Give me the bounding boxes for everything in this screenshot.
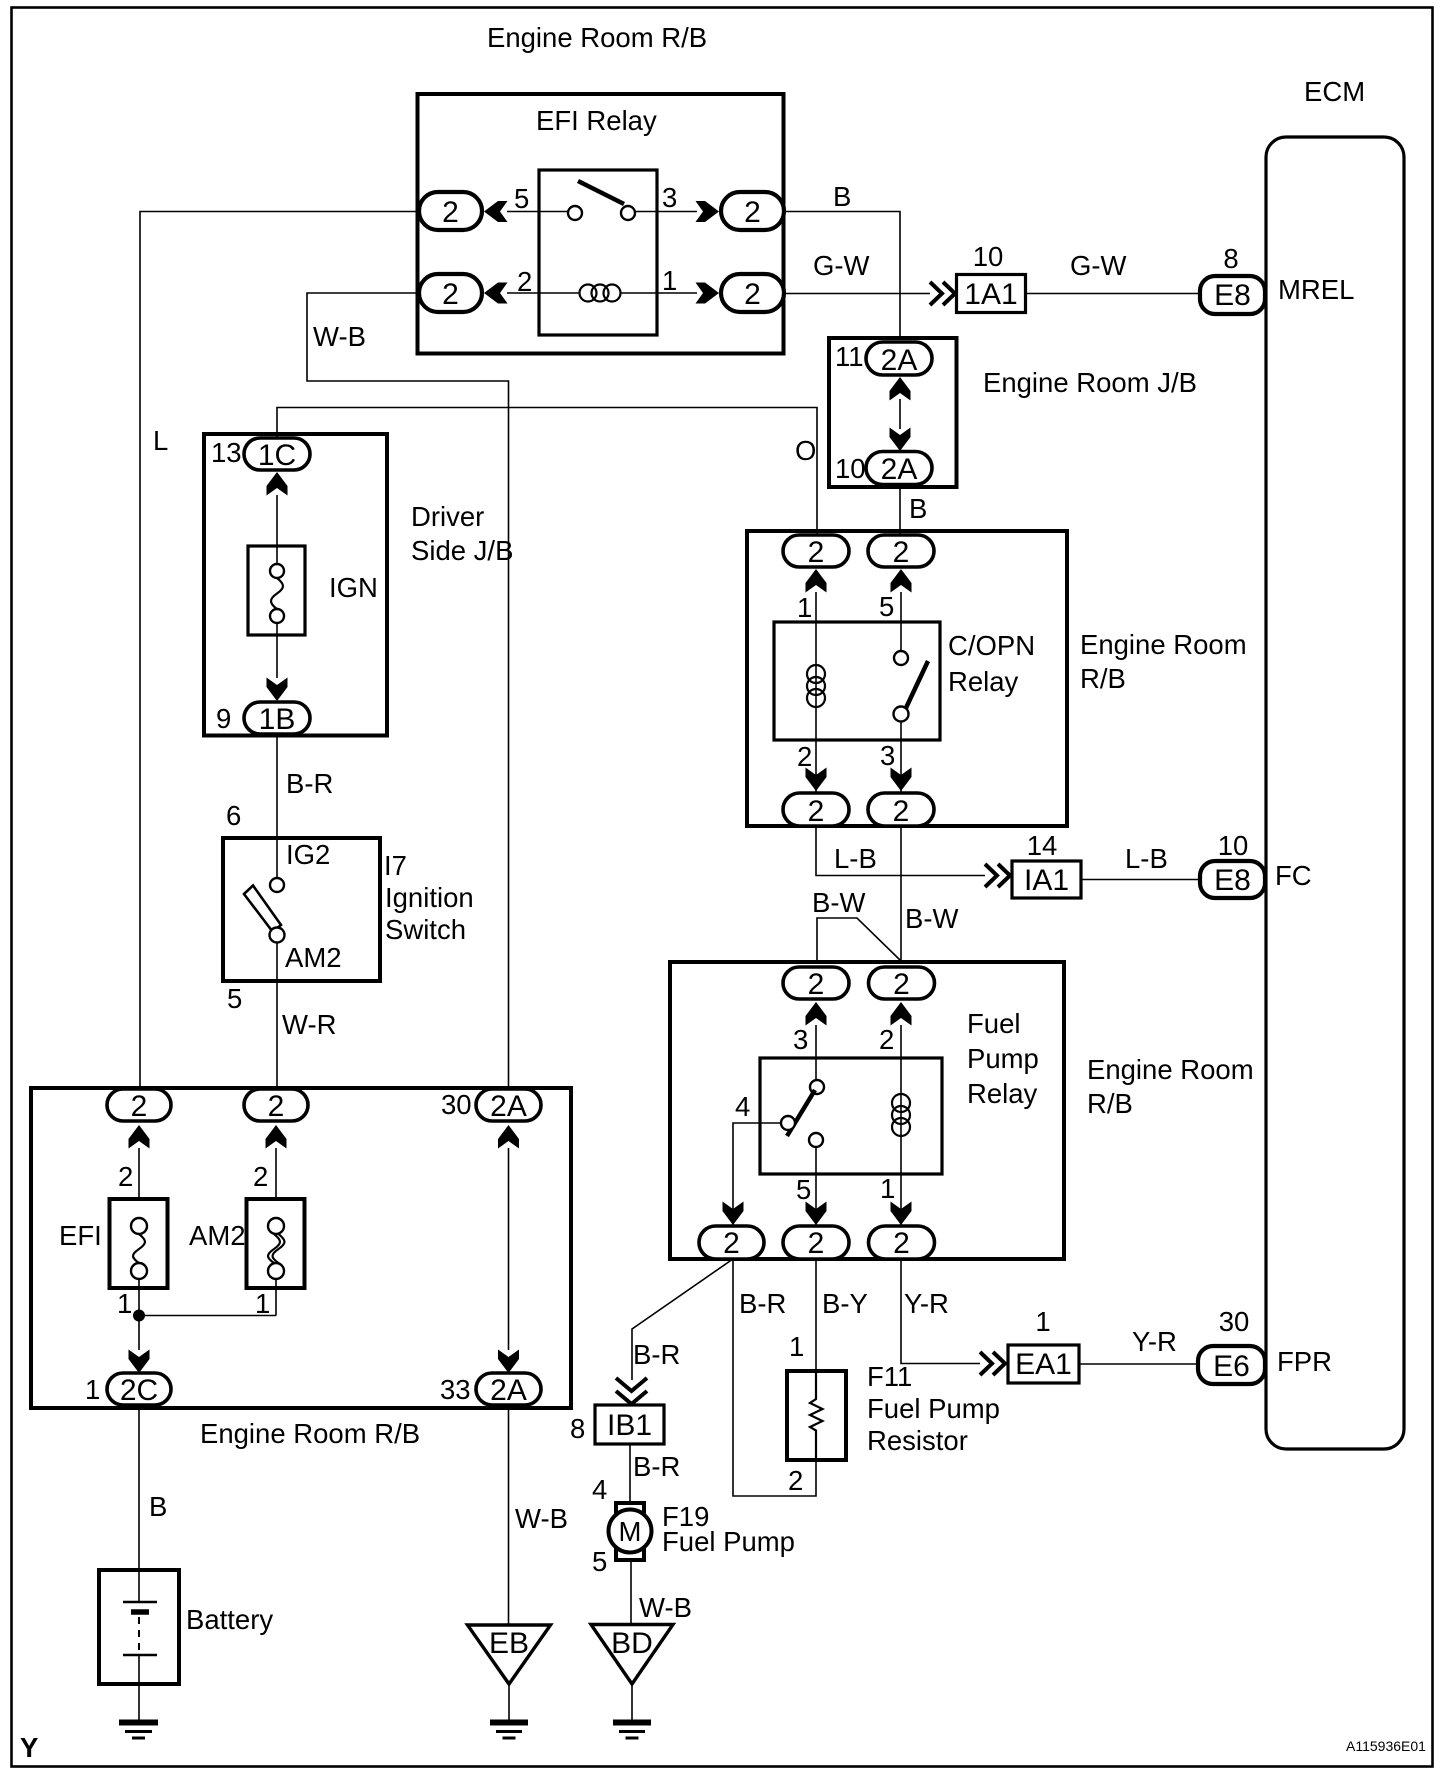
battery box: [99, 1570, 179, 1684]
svg-text:W-B: W-B: [639, 1592, 692, 1623]
AM2 fuse box: [247, 1199, 305, 1288]
svg-text:5: 5: [796, 1174, 811, 1205]
Engine Room J/B box: [829, 338, 957, 487]
IGN fuse box: [248, 546, 305, 635]
EFI relay coil wire pin2: [507, 292, 580, 294]
wire AM2 col upper: [275, 1148, 277, 1218]
svg-text:Fuel: Fuel: [967, 1008, 1021, 1039]
wire between J/B arrows: [899, 399, 901, 429]
svg-text:2: 2: [118, 1161, 133, 1192]
svg-text:2: 2: [808, 536, 825, 569]
svg-text:Relay: Relay: [967, 1078, 1038, 1109]
connector EA1: [1008, 1345, 1079, 1383]
svg-text:2: 2: [442, 278, 459, 311]
Engine Room R/B bottom box: [31, 1088, 571, 1408]
svg-text:2: 2: [442, 196, 459, 229]
connector E8 FC: [1200, 861, 1265, 898]
svg-text:4: 4: [735, 1091, 750, 1122]
arrow up under 1C: [267, 472, 288, 496]
arrow down above 1B: [267, 678, 288, 702]
svg-text:2: 2: [893, 968, 910, 1001]
arrow down above 2A pin10: [890, 428, 911, 452]
svg-text:13: 13: [211, 437, 242, 468]
wire 1C to IGN fuse: [276, 495, 278, 563]
svg-text:2: 2: [808, 968, 825, 1001]
svg-text:A115936E01: A115936E01: [1346, 1738, 1426, 1754]
wire EFI fuse down: [138, 1279, 140, 1350]
wire into IG2: [276, 838, 278, 878]
resistor element: [810, 1371, 823, 1460]
svg-text:Engine Room R/B: Engine Room R/B: [200, 1418, 420, 1449]
svg-text:2: 2: [808, 1227, 825, 1260]
arrow down 2C: [129, 1350, 150, 1374]
svg-text:5: 5: [514, 183, 529, 214]
svg-text:E8: E8: [1214, 279, 1251, 312]
ground symbol BD: [613, 1723, 651, 1739]
EFI relay switch contact left: [568, 206, 582, 220]
arrow down pin1: [891, 1202, 912, 1226]
svg-text:2: 2: [788, 1465, 803, 1496]
FP switch contact left: [781, 1116, 795, 1130]
wire Y-R to EA1: [901, 1259, 980, 1364]
svg-text:14: 14: [1027, 830, 1058, 861]
wire junction horizontal: [139, 1315, 276, 1317]
Fuel Pump Relay Engine Room R/B box: [670, 962, 1064, 1259]
wire W-B pump to BD: [630, 1560, 632, 1625]
wire B-R to resistor bottom: [733, 1259, 816, 1496]
svg-text:3: 3: [662, 182, 677, 213]
terminal oval 2 top-left FP relay: [783, 967, 849, 999]
wire AM2 fuse down: [275, 1279, 277, 1316]
wire BD to ground: [631, 1684, 633, 1720]
svg-text:B-W: B-W: [812, 887, 866, 918]
svg-text:W-B: W-B: [313, 321, 366, 352]
wire B from EFI relay pin3: [785, 212, 901, 341]
FP switch contact top: [810, 1080, 824, 1094]
svg-text:10: 10: [973, 241, 1004, 272]
svg-text:1: 1: [662, 265, 677, 296]
svg-text:L-B: L-B: [834, 843, 877, 874]
arrow down pin3: [891, 768, 912, 792]
ground symbol EB: [490, 1723, 528, 1739]
svg-text:8: 8: [1223, 243, 1238, 274]
svg-text:5: 5: [879, 591, 894, 622]
svg-text:Battery: Battery: [186, 1604, 273, 1635]
terminal oval 1C: [244, 438, 310, 470]
svg-text:Relay: Relay: [948, 666, 1019, 697]
battery plate long bottom: [123, 1654, 157, 1657]
arrow up pin5 C/OPN: [891, 569, 912, 593]
svg-text:B: B: [909, 493, 927, 524]
terminal oval 2 top-right FP relay: [869, 967, 935, 999]
AM2 fuse top contact: [268, 1218, 284, 1234]
EFI relay switch contact right: [621, 206, 635, 220]
EFI relay terminal oval 2 bottom-right: [721, 274, 784, 312]
C/OPN coil: [807, 665, 825, 707]
svg-text:6: 6: [226, 800, 241, 831]
IG2 contact: [270, 878, 284, 892]
svg-text:30: 30: [1219, 1306, 1250, 1337]
wire G-W 1A1 to E8: [1026, 293, 1201, 295]
EFI fuse bottom contact: [131, 1263, 147, 1279]
terminal oval 2 bottom-left C/OPN: [783, 793, 849, 826]
svg-text:2: 2: [893, 795, 910, 828]
svg-text:10: 10: [1218, 830, 1249, 861]
battery bottom lead: [138, 1655, 140, 1720]
svg-text:2: 2: [744, 278, 761, 311]
connector 1A1: [957, 275, 1026, 313]
wire O from 1C to C/OPN relay: [277, 408, 817, 535]
svg-text:B-R: B-R: [286, 768, 333, 799]
terminal oval 2 top-left C/OPN: [783, 535, 849, 567]
connector E8 MREL: [1200, 276, 1265, 314]
F11 fuel pump resistor box: [787, 1371, 846, 1460]
EFI Relay box: [418, 94, 784, 354]
terminal oval 2A col: [476, 1089, 541, 1121]
svg-text:30: 30: [441, 1089, 472, 1120]
wire 2A col: [508, 1148, 510, 1350]
terminal oval 1B: [244, 702, 310, 734]
FP switch wire bottom: [815, 1147, 817, 1225]
wire W-R to Engine Room R/B: [276, 981, 278, 1089]
EFI fuse top contact: [131, 1218, 147, 1234]
svg-text:3: 3: [793, 1024, 808, 1055]
svg-text:10: 10: [835, 453, 866, 484]
svg-text:M: M: [619, 1516, 642, 1547]
FP relay inner element box: [760, 1058, 942, 1174]
F19 fuel pump motor frame: [616, 1503, 644, 1560]
wire EB to ground: [508, 1684, 510, 1720]
svg-text:Pump: Pump: [967, 1043, 1039, 1074]
wire B-W branch to pin3 of fuel pump relay: [817, 918, 901, 962]
IGN fuse element: [271, 578, 283, 609]
svg-text:Driver: Driver: [411, 501, 484, 532]
svg-text:2A: 2A: [881, 344, 918, 377]
svg-text:Engine Room J/B: Engine Room J/B: [983, 367, 1197, 398]
svg-text:1: 1: [797, 592, 812, 623]
EFI relay switch blade: [578, 181, 624, 204]
svg-text:F11: F11: [867, 1361, 912, 1392]
svg-text:AM2: AM2: [189, 1220, 246, 1251]
terminal oval 2 bottom-mid FP: [783, 1226, 849, 1259]
svg-text:Fuel Pump: Fuel Pump: [867, 1393, 1000, 1424]
arrow up 2A col: [498, 1125, 519, 1149]
FP switch blade: [787, 1090, 815, 1136]
svg-text:BD: BD: [611, 1627, 653, 1660]
arrow down pin4: [723, 1202, 744, 1226]
wire B-R 1B to ignition switch: [276, 734, 278, 838]
terminal oval 2 AM2 col: [244, 1089, 308, 1121]
svg-text:2: 2: [744, 196, 761, 229]
svg-text:Engine Room: Engine Room: [1087, 1054, 1254, 1085]
arrow up pin3 FP: [806, 1002, 827, 1026]
terminal oval 2 bottom-right FP: [869, 1226, 935, 1259]
EFI fuse box: [110, 1199, 168, 1288]
svg-text:B-Y: B-Y: [822, 1288, 868, 1319]
wire G-W from EFI relay pin1 to 1A1: [785, 293, 931, 295]
svg-text:2: 2: [808, 795, 825, 828]
arrow up under 2A pin11: [890, 377, 911, 401]
svg-text:B-R: B-R: [739, 1288, 786, 1319]
C/OPN switch wire bottom: [900, 721, 902, 793]
svg-text:1: 1: [85, 1374, 100, 1405]
svg-text:Switch: Switch: [385, 914, 466, 945]
C/OPN inner element box: [774, 622, 940, 740]
svg-text:11: 11: [835, 341, 864, 372]
EFI relay terminal oval 2 top-left: [419, 192, 482, 230]
svg-text:E6: E6: [1213, 1350, 1250, 1383]
FP coil wire: [900, 1025, 902, 1225]
wire pin4 out left: [733, 1123, 781, 1225]
svg-text:Y-R: Y-R: [904, 1288, 949, 1319]
svg-text:Fuel Pump: Fuel Pump: [662, 1526, 795, 1557]
wire B from J/B to C/OPN: [899, 485, 901, 535]
svg-text:2A: 2A: [881, 453, 918, 486]
ECM body: [1266, 137, 1404, 1449]
connector IB1: [595, 1405, 664, 1444]
ground triangle EB: [468, 1625, 551, 1684]
svg-text:L-B: L-B: [1125, 843, 1168, 874]
svg-text:B-R: B-R: [633, 1339, 680, 1370]
svg-text:L: L: [153, 425, 168, 456]
arrow right at pin1: [696, 283, 720, 304]
svg-text:2: 2: [268, 1090, 285, 1123]
svg-text:5: 5: [592, 1546, 607, 1577]
svg-text:1: 1: [1035, 1306, 1050, 1337]
svg-text:IA1: IA1: [1024, 864, 1069, 897]
Driver Side J/B box: [204, 434, 387, 736]
I7 Ignition Switch box: [223, 838, 380, 981]
arrow right at pin3: [696, 201, 720, 222]
chevrons into EA1: [980, 1352, 1005, 1375]
svg-text:Ignition: Ignition: [385, 882, 474, 913]
junction dot: [133, 1310, 145, 1322]
wire B to battery: [138, 1405, 140, 1570]
svg-text:2: 2: [517, 266, 532, 297]
svg-text:R/B: R/B: [1080, 663, 1126, 694]
battery plate short thick: [131, 1609, 149, 1615]
F19 fuel pump motor: [609, 1510, 652, 1553]
svg-text:FC: FC: [1275, 860, 1312, 891]
C/OPN switch contact top: [894, 651, 908, 665]
svg-text:33: 33: [440, 1374, 471, 1405]
svg-text:1A1: 1A1: [964, 278, 1017, 311]
ground triangle BD: [591, 1625, 673, 1685]
wire L-B to IA1: [816, 826, 985, 876]
AM2 fuse element double: [268, 1234, 285, 1263]
battery top lead: [138, 1570, 140, 1601]
svg-text:I7: I7: [384, 850, 407, 881]
wire W-B from EFI relay pin2: [307, 293, 509, 1089]
FP switch wire top: [815, 1025, 817, 1080]
svg-text:EB: EB: [489, 1627, 529, 1660]
battery dashed cells: [138, 1617, 140, 1651]
svg-text:5: 5: [227, 983, 242, 1014]
svg-text:W-R: W-R: [282, 1009, 336, 1040]
svg-text:B: B: [149, 1491, 167, 1522]
svg-text:2: 2: [723, 1227, 740, 1260]
chevrons into IA1: [985, 864, 1010, 887]
C/OPN switch contact bottom: [894, 707, 909, 722]
wire B-R diagonal to IB1: [632, 1260, 732, 1380]
svg-text:EFI: EFI: [59, 1220, 102, 1251]
connector IA1: [1012, 861, 1081, 898]
svg-text:R/B: R/B: [1087, 1088, 1133, 1119]
svg-text:IB1: IB1: [607, 1409, 652, 1442]
AM2 contact: [270, 928, 285, 943]
wire AM2 out: [276, 942, 278, 981]
svg-text:B-R: B-R: [633, 1451, 680, 1482]
C/OPN switch blade: [905, 661, 928, 710]
svg-text:2: 2: [131, 1090, 148, 1123]
FP relay coil: [892, 1094, 910, 1136]
svg-text:Engine Room: Engine Room: [1080, 629, 1247, 660]
svg-text:B-W: B-W: [905, 903, 959, 934]
arrow up EFI col: [129, 1125, 150, 1149]
wire L horizontal from EFI relay pin5: [140, 212, 419, 1090]
ground symbol battery: [119, 1723, 158, 1739]
svg-text:MREL: MREL: [1278, 274, 1354, 305]
FP switch contact bottom: [809, 1133, 823, 1147]
wire B-R IB1 to pump: [629, 1444, 631, 1503]
svg-text:Y-R: Y-R: [1132, 1326, 1177, 1357]
svg-text:1: 1: [255, 1288, 270, 1319]
svg-text:C/OPN: C/OPN: [948, 630, 1035, 661]
C/OPN coil wire: [815, 592, 817, 793]
wire pin5 to switch: [507, 211, 568, 213]
wire EFI col upper: [138, 1148, 140, 1218]
IGN fuse bottom contact: [270, 609, 284, 623]
svg-text:2A: 2A: [490, 1374, 527, 1407]
svg-text:2A: 2A: [490, 1090, 527, 1123]
arrow left at pin5: [484, 201, 508, 222]
svg-text:4: 4: [592, 1474, 607, 1505]
arrow up AM2 col: [266, 1125, 287, 1149]
svg-text:IG2: IG2: [286, 839, 330, 870]
terminal oval 2 top-right C/OPN: [868, 535, 934, 567]
terminal oval 2 bottom-right C/OPN: [868, 793, 934, 826]
arrow left at pin2: [484, 283, 508, 304]
svg-text:G-W: G-W: [813, 250, 870, 281]
svg-text:EFI Relay: EFI Relay: [536, 105, 657, 136]
svg-text:3: 3: [880, 740, 895, 771]
EFI relay terminal oval 2 bottom-left: [419, 274, 482, 312]
svg-text:9: 9: [216, 703, 231, 734]
IGN fuse top contact: [270, 564, 284, 578]
terminal oval 2 EFI col: [107, 1089, 171, 1121]
wire Y-R EA1 to E6: [1079, 1363, 1198, 1365]
svg-text:1B: 1B: [259, 703, 296, 736]
svg-text:G-W: G-W: [1070, 250, 1127, 281]
wire switch to pin3: [635, 211, 697, 213]
battery plate long top: [123, 1601, 157, 1604]
AM2 fuse bottom contact: [268, 1263, 284, 1279]
svg-text:FPR: FPR: [1277, 1346, 1332, 1377]
arrow up pin2 FP: [891, 1002, 912, 1026]
svg-text:EA1: EA1: [1015, 1348, 1072, 1381]
wire W-B to EB: [508, 1405, 510, 1625]
EFI relay inner element box: [539, 170, 657, 335]
C/OPN Relay Engine Room R/B box: [747, 531, 1067, 826]
svg-text:Resistor: Resistor: [867, 1425, 968, 1456]
terminal oval 2A bottom: [476, 1373, 541, 1405]
wire B-Y to resistor: [815, 1259, 817, 1371]
svg-text:1: 1: [880, 1173, 895, 1204]
arrow down pin5: [806, 1202, 827, 1226]
svg-text:ECM: ECM: [1304, 76, 1365, 107]
terminal oval 2C: [107, 1373, 171, 1405]
wire L-B IA1 to E8: [1082, 879, 1201, 881]
svg-text:2: 2: [797, 741, 812, 772]
svg-text:1C: 1C: [258, 439, 296, 472]
svg-text:AM2: AM2: [285, 942, 342, 973]
svg-text:B: B: [833, 181, 851, 212]
arrow down pin2: [806, 768, 827, 792]
wire IGN fuse to 1B: [276, 623, 278, 678]
EFI relay coil wire pin1: [620, 292, 697, 294]
EFI relay coil: [580, 285, 621, 302]
arrow up pin1 C/OPN: [806, 569, 827, 593]
svg-text:Engine Room R/B: Engine Room R/B: [487, 22, 707, 53]
svg-text:O: O: [795, 435, 816, 466]
chevrons into 1A1: [930, 282, 955, 305]
svg-text:E8: E8: [1214, 864, 1251, 897]
svg-text:W-B: W-B: [515, 1503, 568, 1534]
connector E6 FPR: [1198, 1346, 1265, 1384]
svg-text:2: 2: [253, 1161, 268, 1192]
wire B-W from C/OPN pin3 down: [900, 826, 902, 961]
chevrons down into IB1: [616, 1378, 647, 1404]
svg-text:8: 8: [570, 1413, 585, 1444]
arrow down 2A bottom: [498, 1350, 519, 1374]
EFI fuse element: [133, 1234, 145, 1263]
svg-text:1: 1: [117, 1288, 132, 1319]
C/OPN switch wire top: [900, 592, 902, 651]
svg-text:IGN: IGN: [329, 572, 378, 603]
svg-text:Side J/B: Side J/B: [411, 535, 513, 566]
terminal oval 2A pin10: [866, 452, 932, 485]
svg-text:2C: 2C: [120, 1374, 158, 1407]
svg-text:Y: Y: [20, 1732, 38, 1763]
EFI relay terminal oval 2 top-right: [721, 192, 784, 230]
svg-text:2: 2: [893, 1227, 910, 1260]
terminal oval 2A pin11: [866, 342, 932, 375]
svg-text:2: 2: [879, 1024, 894, 1055]
svg-text:1: 1: [789, 1331, 804, 1362]
terminal oval 2 bottom-left FP: [699, 1226, 764, 1259]
svg-text:2: 2: [893, 536, 910, 569]
ignition switch lever: [244, 886, 281, 932]
